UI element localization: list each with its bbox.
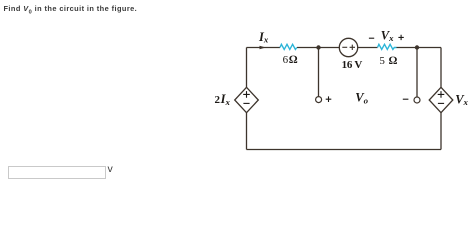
svg-text:16 V: 16 V <box>342 59 363 71</box>
wire right top segment <box>397 47 442 49</box>
left diamond plus <box>243 91 250 98</box>
minus sign above 5ohm <box>369 37 374 39</box>
minus sign at Vo right terminal <box>403 98 409 100</box>
source minus sign <box>342 46 347 48</box>
dependent source diamond left 2Ix <box>235 87 259 112</box>
svg-text:Vx: Vx <box>455 92 468 107</box>
wire right branch upper <box>440 48 442 88</box>
resistor R1 6ohm zigzag <box>280 44 297 49</box>
wire middle-left stub <box>318 48 320 97</box>
dependent source diamond right Vx <box>429 87 453 112</box>
terminal circle right (-) <box>414 97 420 103</box>
svg-text:6Ω: 6Ω <box>283 54 298 66</box>
answer input box <box>8 166 107 180</box>
wire between source and 5ohm resistor <box>358 47 378 49</box>
svg-text:2: 2 <box>215 94 221 106</box>
svg-text:Ix: Ix <box>220 92 231 107</box>
wire between 6ohm resistor and source <box>297 47 340 49</box>
svg-text:Vx: Vx <box>381 28 394 43</box>
wire bottom rail <box>247 149 442 151</box>
right diamond plus <box>438 91 445 98</box>
svg-text:Ix: Ix <box>258 30 269 45</box>
unit label v <box>108 163 113 175</box>
plus sign at Vo left terminal <box>326 96 332 102</box>
wire middle-right stub <box>416 48 418 97</box>
wire left branch upper <box>246 48 248 88</box>
wire left branch lower <box>246 113 248 150</box>
resistor R2 5ohm zigzag <box>378 44 397 49</box>
node junction dot right <box>415 45 419 49</box>
svg-text:Vo: Vo <box>355 91 368 106</box>
current arrow Ix <box>260 46 266 50</box>
wire top-left segment <box>247 47 281 49</box>
terminal circle left (+) <box>316 97 322 103</box>
source plus sign <box>350 45 355 50</box>
left diamond minus <box>243 102 249 104</box>
plus sign above 5ohm <box>398 35 403 40</box>
node junction dot left <box>316 45 320 49</box>
svg-text:5Ω: 5Ω <box>379 55 397 67</box>
voltage source 16V circle <box>339 38 357 56</box>
wire right branch lower <box>440 113 442 150</box>
right diamond minus <box>438 102 444 104</box>
